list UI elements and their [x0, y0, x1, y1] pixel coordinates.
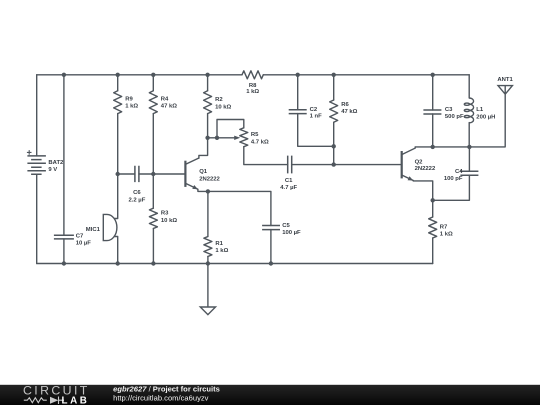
wire R9-MIC column	[114, 75, 118, 264]
svg-text:ANT1: ANT1	[497, 77, 513, 83]
svg-text:R9: R9	[125, 96, 133, 102]
wire Q2 emitter node	[413, 147, 469, 200]
svg-text:47 kΩ: 47 kΩ	[161, 104, 177, 110]
wire top rail	[37, 74, 470, 76]
svg-text:500 pF: 500 pF	[445, 114, 464, 120]
svg-text:4.7 µF: 4.7 µF	[280, 185, 297, 191]
node top rail dots	[62, 73, 66, 77]
transistor Q2	[402, 147, 416, 181]
svg-text:10 kΩ: 10 kΩ	[215, 105, 231, 111]
svg-text:C4: C4	[455, 169, 463, 175]
resistor R7	[429, 217, 437, 238]
capacitor C2	[289, 110, 307, 114]
svg-text:R5: R5	[251, 132, 259, 138]
wire R6 column	[333, 75, 335, 165]
wire R5 top loop	[217, 120, 244, 138]
wire R2 column	[199, 75, 208, 158]
svg-text:1 kΩ: 1 kΩ	[215, 248, 228, 254]
potentiometer R5 wiper arrow	[234, 136, 240, 140]
svg-text:10 µF: 10 µF	[76, 241, 92, 247]
wire C1 to Q2 base	[292, 164, 401, 166]
wire C6 base wire	[118, 173, 185, 175]
capacitor C5	[262, 226, 280, 230]
svg-text:C5: C5	[282, 223, 290, 229]
svg-text:R7: R7	[440, 225, 448, 231]
svg-text:1 kΩ: 1 kΩ	[440, 232, 453, 238]
svg-text:R1: R1	[215, 241, 223, 247]
microphone MIC1	[103, 214, 117, 240]
svg-text:Q1: Q1	[199, 169, 208, 175]
battery BAT2	[27, 150, 46, 174]
wire Q1 emitter node	[198, 189, 271, 263]
svg-text:2.2 µF: 2.2 µF	[128, 198, 145, 204]
svg-text:4.7 kΩ: 4.7 kΩ	[251, 140, 269, 146]
wire R7 leads	[432, 200, 434, 263]
inductor L1	[464, 98, 473, 123]
svg-text:C1: C1	[285, 178, 293, 184]
node C6 tee	[151, 172, 155, 176]
resistor R5	[240, 128, 248, 147]
svg-text:R6: R6	[341, 102, 349, 108]
node Q2 emitter tee	[431, 198, 435, 202]
svg-text:C3: C3	[445, 107, 453, 113]
wire C3 column	[432, 75, 434, 147]
capacitor C6	[135, 166, 139, 182]
svg-text:C6: C6	[133, 190, 141, 196]
transistor Q1	[185, 158, 199, 189]
svg-text:LAB: LAB	[62, 396, 90, 405]
svg-text:BAT2: BAT2	[48, 160, 64, 166]
resistor R3	[149, 208, 157, 228]
resistor R2	[204, 91, 212, 114]
wire battery column	[36, 75, 38, 264]
svg-text:10 kΩ: 10 kΩ	[161, 218, 177, 224]
capacitor C3	[423, 110, 441, 114]
svg-text:L1: L1	[476, 107, 484, 113]
svg-text:200 µH: 200 µH	[476, 115, 495, 121]
svg-text:http://circuitlab.com/ca6uyzv: http://circuitlab.com/ca6uyzv	[113, 394, 209, 403]
svg-text:2N2222: 2N2222	[199, 176, 220, 182]
capacitor C1	[288, 156, 292, 174]
svg-text:1 nF: 1 nF	[310, 114, 323, 120]
svg-text:C2: C2	[310, 107, 318, 113]
node R6 base tee	[332, 162, 336, 166]
svg-text:9 V: 9 V	[48, 167, 57, 173]
svg-text:47 kΩ: 47 kΩ	[341, 109, 357, 115]
svg-text:C7: C7	[76, 233, 84, 239]
wire ground lead	[207, 264, 209, 307]
wire R5 bottom to C1	[244, 147, 288, 165]
footer bar	[0, 384, 540, 405]
svg-text:100 pF: 100 pF	[444, 176, 463, 182]
svg-text:R3: R3	[161, 211, 169, 217]
wire R5 wiper	[208, 137, 236, 139]
wire C2 column	[298, 75, 334, 147]
svg-text:100 µF: 100 µF	[282, 230, 301, 236]
svg-text:R4: R4	[161, 96, 169, 102]
svg-text:egbr2627 / Project for circuit: egbr2627 / Project for circuits	[113, 384, 220, 393]
svg-text:R2: R2	[215, 97, 223, 103]
ground	[200, 307, 215, 315]
antenna ANT1	[498, 86, 512, 95]
wire bottom rail	[37, 263, 433, 265]
svg-text:Q2: Q2	[415, 159, 424, 165]
node Q1 emitter tee	[206, 189, 210, 193]
wire R4-R3 column	[152, 75, 154, 264]
capacitor C4	[460, 171, 478, 175]
wire C7 column	[63, 75, 65, 264]
node collector rail dots	[431, 145, 435, 149]
logo resistor zigzag + diode	[24, 397, 64, 405]
resistor R9	[114, 91, 122, 114]
wire R1 leads	[207, 191, 209, 263]
wire Q2 collector rail	[415, 94, 505, 147]
resistor R1	[204, 237, 212, 257]
svg-text:1 kΩ: 1 kΩ	[246, 89, 259, 95]
wire L1 column	[468, 75, 470, 147]
resistor R8	[242, 71, 263, 79]
svg-text:MIC1: MIC1	[86, 227, 101, 233]
resistor R6	[330, 100, 338, 122]
svg-text:2N2222: 2N2222	[415, 166, 436, 172]
node C2-R6 tee	[332, 144, 336, 148]
node R2-wiper junction	[205, 136, 209, 140]
svg-text:1 kΩ: 1 kΩ	[125, 104, 138, 110]
node bottom rail dots	[62, 261, 66, 265]
resistor R4	[149, 91, 157, 114]
capacitor C7	[54, 235, 74, 239]
